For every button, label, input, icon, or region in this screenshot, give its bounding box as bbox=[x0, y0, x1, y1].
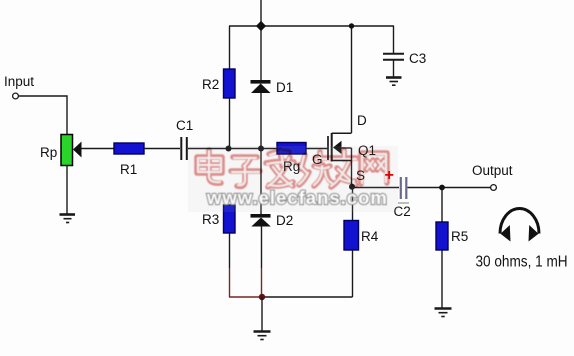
wire D2 lower maroon segment bbox=[261, 268, 263, 297]
resistor Rg bbox=[277, 143, 306, 155]
capacitor C1 bbox=[181, 137, 187, 160]
svg-text:Input: Input bbox=[4, 74, 34, 89]
svg-text:R2: R2 bbox=[202, 77, 219, 92]
capacitor C2 bbox=[401, 177, 407, 199]
svg-text:R4: R4 bbox=[361, 229, 379, 244]
node output/R5 junction bbox=[439, 185, 445, 191]
ground bottom center bbox=[254, 332, 271, 340]
svg-text:R1: R1 bbox=[120, 162, 137, 177]
wire D1 to signal line and down to D2 bbox=[260, 93, 262, 214]
svg-text:www.elecfans.com: www.elecfans.com bbox=[206, 187, 388, 208]
capacitor C3 bbox=[383, 54, 404, 60]
transistor Q1 MOSFET bbox=[328, 133, 352, 186]
wire top supply rail bbox=[229, 25, 394, 27]
svg-text:30 ohms, 1 mH: 30 ohms, 1 mH bbox=[476, 254, 568, 271]
watermark pink calligraphy 电子发烧友网 bbox=[197, 150, 387, 187]
source lead bbox=[332, 160, 352, 162]
ground under R5 bbox=[435, 309, 452, 317]
resistor R3 bbox=[224, 205, 236, 233]
potentiometer Rp wiper arrow bbox=[73, 142, 82, 158]
wire rail to R2 top bbox=[229, 26, 231, 69]
wire C1 to gate (signal line) bbox=[188, 148, 328, 150]
resistor R1 bbox=[114, 143, 144, 154]
wire input to Rp bbox=[19, 96, 68, 135]
body arrow bbox=[333, 141, 342, 154]
wire bottom rail maroon left bbox=[229, 296, 262, 298]
ground under Rp bbox=[60, 215, 76, 223]
svg-text:R3: R3 bbox=[202, 212, 219, 227]
node bottom rail junction bbox=[259, 294, 265, 300]
resistor R2 bbox=[224, 69, 236, 98]
wire C2 to output bbox=[408, 187, 492, 189]
wire R3 to bottom rail bbox=[229, 233, 231, 268]
svg-text:R5: R5 bbox=[451, 229, 468, 244]
node source junction S bbox=[349, 184, 355, 190]
node signal/R2R3 junction bbox=[226, 146, 232, 152]
svg-text:C3: C3 bbox=[409, 51, 426, 66]
wire S to R4 bbox=[352, 187, 354, 221]
wire R5 to ground bbox=[441, 250, 443, 308]
wire R1 to C1 bbox=[144, 148, 180, 150]
wire rail to ground bbox=[261, 297, 263, 331]
svg-text:+: + bbox=[385, 167, 394, 184]
diode D1 bbox=[251, 80, 271, 93]
drain lead bbox=[332, 132, 352, 134]
wire rail to C3 bbox=[393, 26, 395, 53]
wire V+ feed from top edge bbox=[260, 0, 262, 25]
gate bar bbox=[327, 136, 329, 160]
svg-text:D1: D1 bbox=[276, 80, 293, 95]
wire bottom rail right bbox=[262, 296, 353, 298]
svg-text:D2: D2 bbox=[276, 213, 293, 228]
potentiometer Rp body bbox=[61, 135, 73, 166]
wire R2 to signal line bbox=[229, 98, 231, 149]
resistor R4 bbox=[344, 221, 359, 251]
source vertical bbox=[351, 148, 353, 186]
channel bar bbox=[331, 133, 333, 162]
wire C3 to ground bbox=[393, 60, 395, 77]
svg-text:D: D bbox=[357, 113, 367, 128]
terminal input bbox=[13, 93, 19, 99]
node rail/drain junction bbox=[349, 23, 354, 28]
svg-text:Output: Output bbox=[472, 163, 513, 178]
node signal/D1D2 junction bbox=[258, 146, 264, 152]
wire R4 to bottom rail bbox=[352, 250, 354, 297]
wire Rp wiper to R1 bbox=[81, 148, 114, 150]
wire Rp to ground bbox=[66, 165, 68, 214]
wire D2 to bottom rail bbox=[261, 226, 263, 268]
body lead bbox=[341, 147, 352, 149]
wire S to C2 bbox=[352, 187, 399, 189]
terminal output bbox=[491, 185, 497, 191]
wire R3 lower maroon segment bbox=[229, 268, 231, 297]
wire output junction to R5 bbox=[441, 188, 443, 223]
watermark band wash bbox=[188, 146, 398, 212]
svg-text:Rp: Rp bbox=[40, 145, 57, 160]
headphone icon bbox=[500, 209, 539, 242]
wire drain feed bbox=[351, 26, 353, 133]
diode D2 bbox=[251, 214, 271, 227]
wire rail to D1 cathode bbox=[260, 26, 262, 80]
svg-text:C1: C1 bbox=[176, 118, 193, 133]
resistor R5 bbox=[436, 222, 448, 250]
label C2 bbox=[398, 202, 409, 204]
node rail/D1 junction bbox=[256, 21, 266, 31]
ground under C3 bbox=[386, 78, 402, 86]
